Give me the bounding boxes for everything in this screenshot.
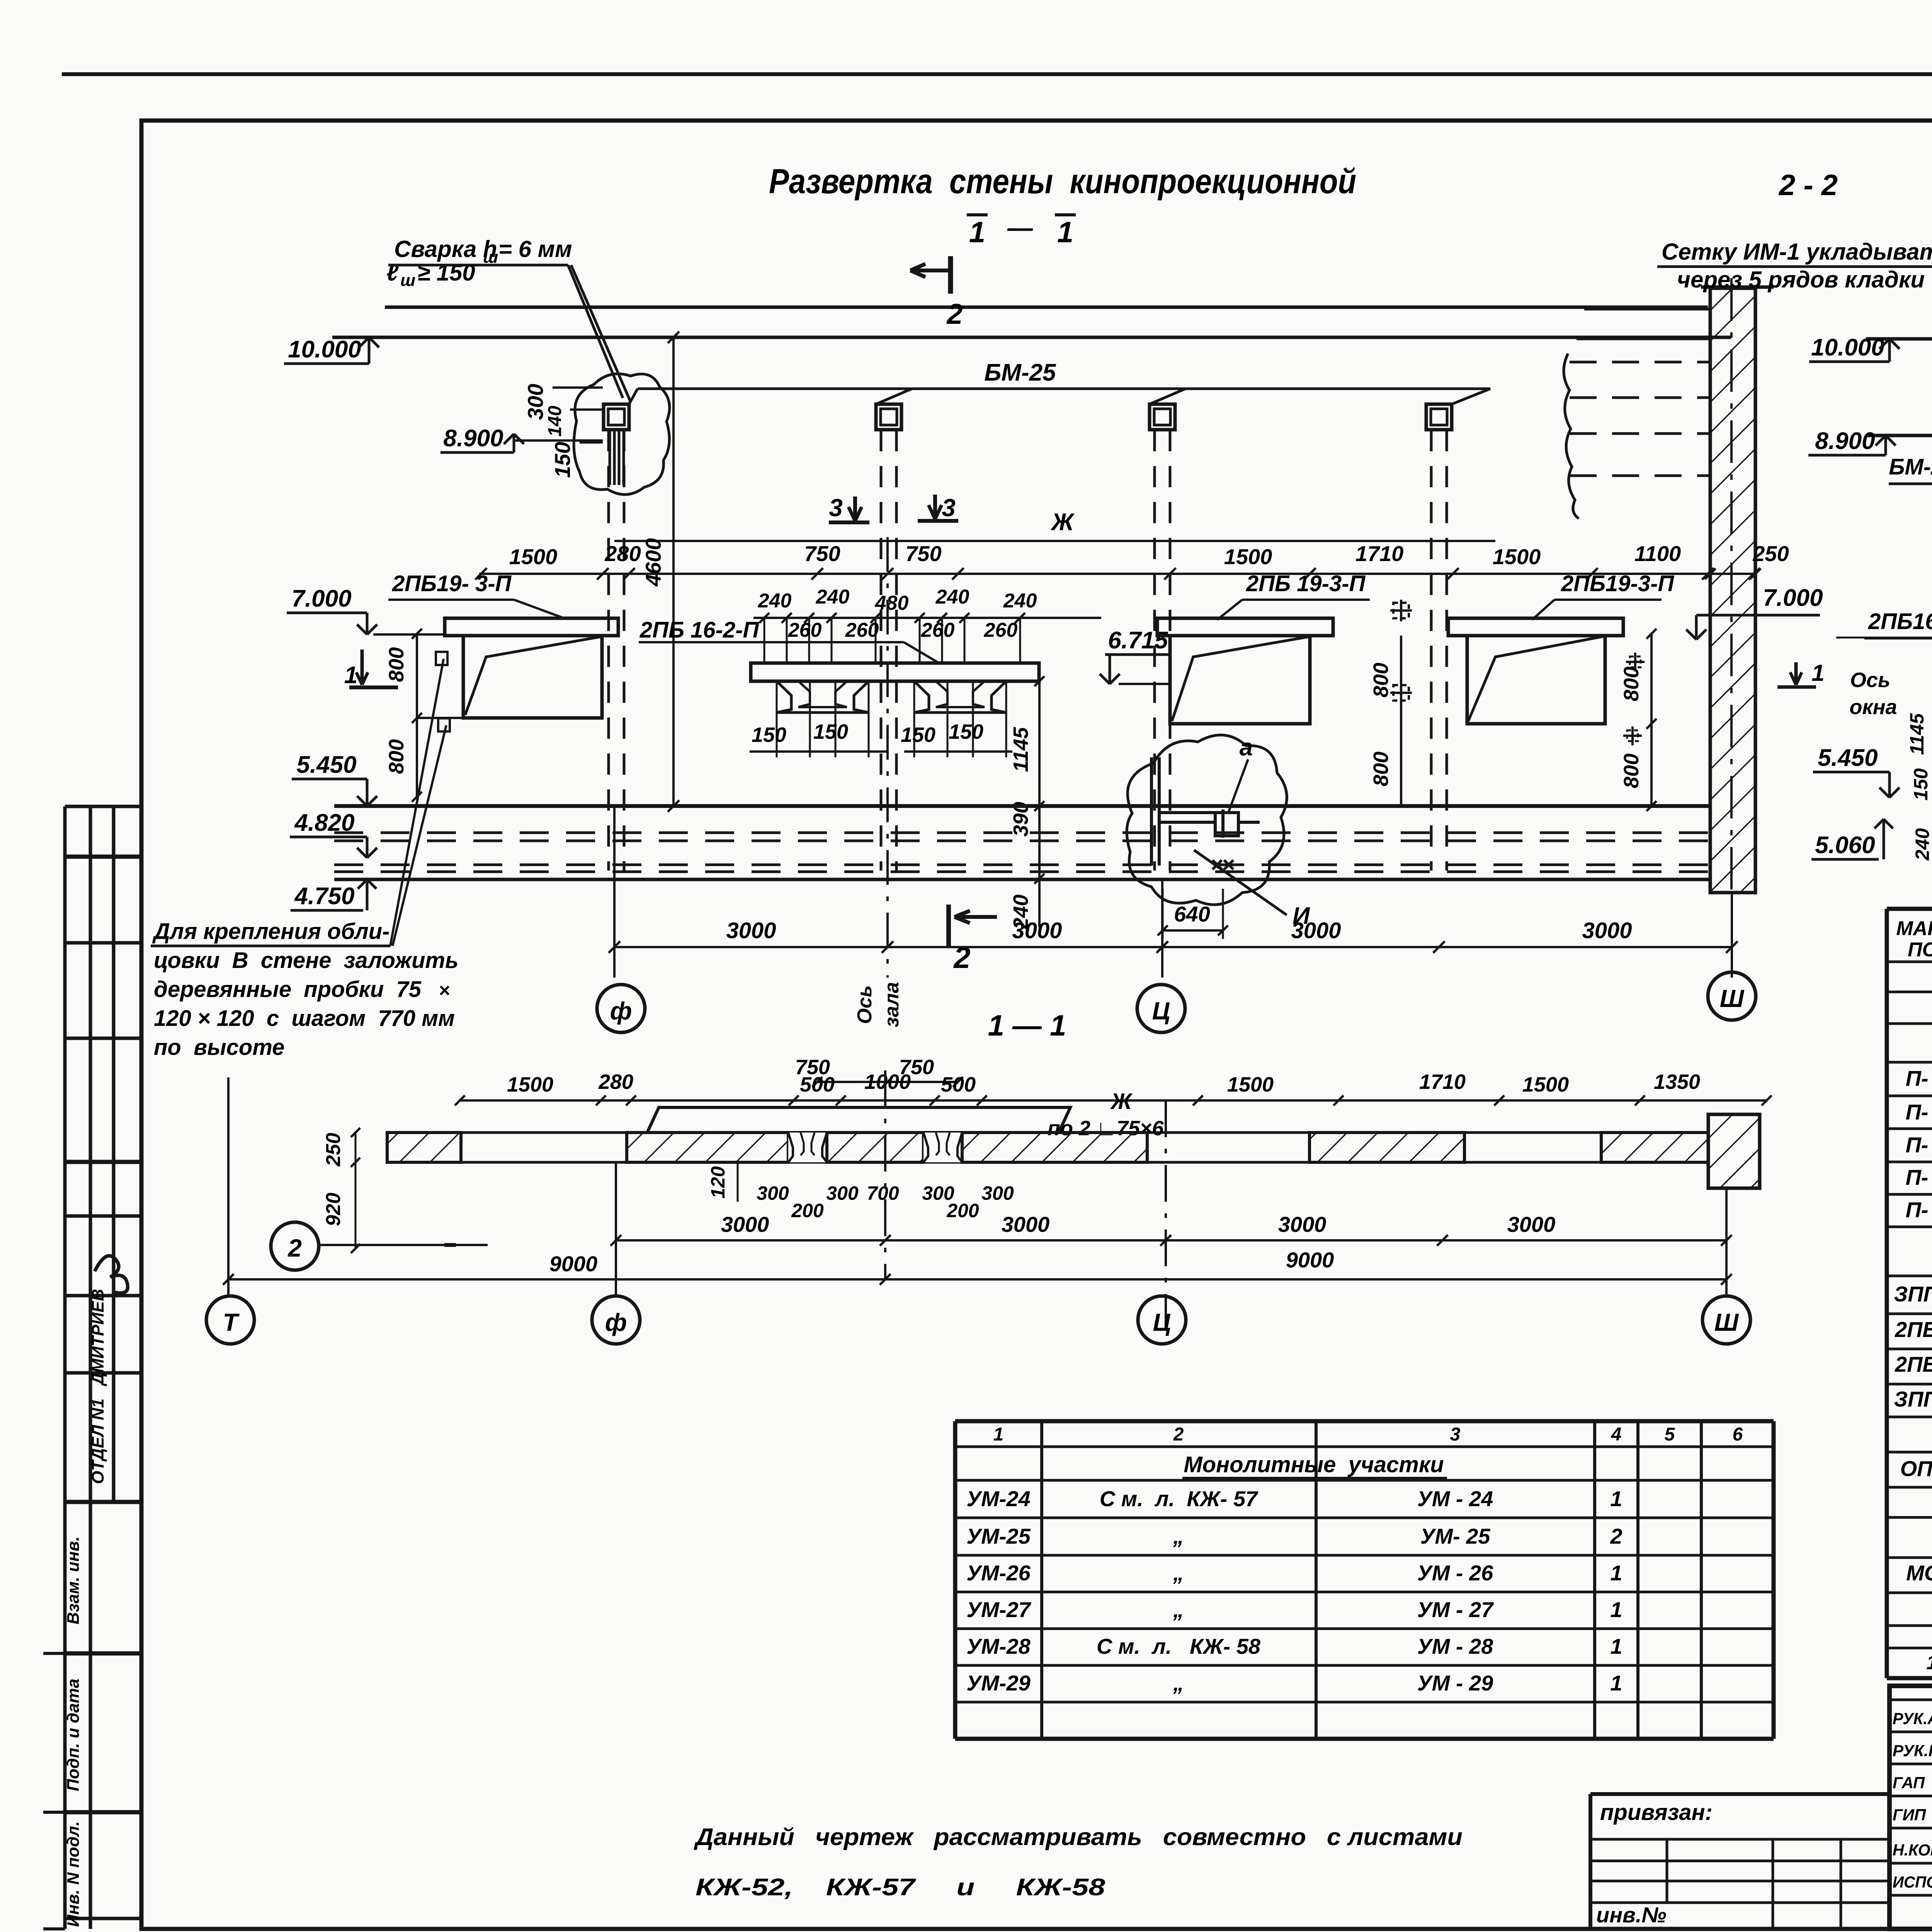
- svg-text:9000: 9000: [1286, 1248, 1334, 1272]
- svg-text:БМ-25: БМ-25: [1889, 454, 1932, 480]
- s11 end block: [1708, 1114, 1760, 1188]
- svg-text:Н.КОНТР.: Н.КОНТР.: [1893, 1841, 1932, 1859]
- window W2 opening: [1170, 636, 1310, 724]
- svg-text:Ж: Ж: [1110, 1089, 1133, 1114]
- svg-text:1: 1: [1610, 1671, 1622, 1695]
- s11 axis bubble T: [206, 1296, 254, 1344]
- svg-text:3: 3: [942, 494, 956, 522]
- s11 pier F1: [627, 1133, 788, 1162]
- svg-text:920: 920: [322, 1193, 345, 1226]
- dim 800 800 right of W3: [1650, 634, 1653, 806]
- svg-text:140: 140: [545, 406, 565, 437]
- svg-text:3000: 3000: [1291, 918, 1341, 943]
- masonry wall cap line: [1701, 286, 1774, 289]
- svg-text:≥ 150: ≥ 150: [417, 260, 475, 286]
- svg-text:800: 800: [385, 647, 408, 682]
- svg-text:2ПБ19-3-П: 2ПБ19-3-П: [1561, 571, 1674, 596]
- zh line: [614, 540, 1495, 542]
- svg-text:1: 1: [344, 662, 357, 689]
- dim 800 800 left: [416, 634, 418, 797]
- svg-text:Ц: Ц: [1152, 997, 1170, 1025]
- svg-text:Сварка h: Сварка h: [394, 236, 497, 262]
- wall anchor marks mid: [1390, 600, 1412, 621]
- niche a detail: [1150, 757, 1153, 866]
- svg-text:5.450: 5.450: [1818, 745, 1878, 771]
- column K1 anchor box: [604, 404, 629, 430]
- svg-text:800: 800: [1620, 753, 1643, 788]
- svg-text:150: 150: [949, 720, 983, 743]
- svg-text:КЖ-52, КЖ-57 и КЖ-5: КЖ-52, КЖ-57 и КЖ-58: [696, 1874, 1105, 1901]
- svg-text:3000: 3000: [721, 1212, 769, 1236]
- svg-text:УМ - 28: УМ - 28: [1417, 1634, 1493, 1658]
- svg-text:260: 260: [921, 619, 955, 641]
- svg-text:240: 240: [758, 590, 792, 612]
- svg-text:Ш: Ш: [1714, 1308, 1739, 1336]
- s11 pier Sh-left: [1601, 1133, 1708, 1162]
- svg-text:МАРКА: МАРКА: [1896, 917, 1932, 940]
- svg-text:УМ - 24: УМ - 24: [1417, 1486, 1493, 1511]
- svg-text:4: 4: [1611, 1424, 1622, 1445]
- svg-text:280: 280: [604, 541, 641, 566]
- svg-text:ОТДЕЛ N1: ОТДЕЛ N1: [88, 1398, 107, 1484]
- svg-text:ДМИТРИЕВ: ДМИТРИЕВ: [88, 1289, 107, 1386]
- s11 axis bubble C: [1138, 1296, 1186, 1344]
- svg-text:1500: 1500: [507, 1073, 553, 1096]
- svg-text:3: 3: [1450, 1424, 1461, 1445]
- svg-text:1: 1: [993, 1424, 1004, 1445]
- svg-text:150: 150: [1910, 768, 1932, 801]
- svg-text:Ось: Ось: [854, 985, 876, 1024]
- svg-text:1500: 1500: [509, 544, 558, 569]
- svg-text:150: 150: [752, 723, 786, 747]
- svg-text:ПОЗ.: ПОЗ.: [1908, 939, 1932, 961]
- svg-text:„: „: [1173, 1597, 1184, 1622]
- s11 niche cut 1: [788, 1133, 827, 1162]
- svg-text:деревянные пробки 75: деревянные пробки 75: [154, 977, 422, 1002]
- svg-text:1500: 1500: [1493, 544, 1541, 569]
- svg-text:150: 150: [901, 723, 935, 747]
- s11 steel angles plate: [647, 1107, 1070, 1133]
- s11 axis bubble F: [592, 1296, 640, 1344]
- svg-text:БМ-25: БМ-25: [984, 359, 1056, 386]
- svg-text:200: 200: [791, 1200, 824, 1221]
- svg-text:1710: 1710: [1355, 541, 1404, 566]
- anchor crosses: [1213, 860, 1222, 869]
- anchor mark plus W3 lower: [1631, 726, 1634, 745]
- s22 level line 10.000: [1866, 337, 1932, 341]
- s11 pier mid: [827, 1133, 923, 1162]
- revision cloud a: [1127, 735, 1287, 905]
- svg-text:—: —: [1007, 213, 1033, 242]
- svg-text:1: 1: [1057, 216, 1073, 249]
- svg-text:Ось: Ось: [1850, 668, 1890, 692]
- svg-text:Т: Т: [223, 1308, 240, 1336]
- elevation dim line 3000x4: [614, 946, 1732, 948]
- lintel bar over window W2: [1157, 618, 1333, 636]
- elevation roof beam top line: [385, 306, 1708, 309]
- niche vertical guide lines: [776, 681, 778, 757]
- svg-text:800: 800: [1369, 752, 1393, 786]
- lintel bar over window W1: [445, 618, 618, 636]
- svg-text:1: 1: [1811, 660, 1824, 686]
- svg-text:3: 3: [829, 494, 843, 522]
- svg-text:3000: 3000: [1278, 1212, 1327, 1236]
- column K3 anchor box: [1150, 404, 1175, 430]
- svg-text:1500: 1500: [1227, 1073, 1274, 1096]
- svg-text:ЗПП-14: ЗПП-14: [1894, 1387, 1932, 1411]
- svg-text:300: 300: [523, 384, 548, 420]
- svg-text:МС 2: МС 2: [1906, 1561, 1932, 1585]
- svg-text:500: 500: [941, 1073, 976, 1096]
- svg-text:РУК.АБ-1: РУК.АБ-1: [1893, 1709, 1932, 1728]
- weld note leaders: [568, 265, 623, 398]
- svg-text:1710: 1710: [1419, 1070, 1466, 1094]
- s11 pier T: [387, 1133, 461, 1162]
- svg-text:ГАП: ГАП: [1893, 1774, 1925, 1792]
- svg-text:250: 250: [1752, 541, 1789, 566]
- wall dim 250 top: [1705, 568, 1716, 579]
- column K2 anchor box: [876, 404, 901, 430]
- svg-text:по высоте: по высоте: [154, 1035, 284, 1060]
- svg-text:×: ×: [439, 980, 450, 1001]
- svg-text:3000: 3000: [1002, 1212, 1050, 1236]
- svg-text:Данный чертеж рассматриват: Данный чертеж рассматривать совместно с …: [694, 1824, 1463, 1850]
- svg-text:ф: ф: [605, 1308, 627, 1336]
- svg-text:инв.№: инв.№: [1596, 1903, 1667, 1927]
- dim 1145 390 240 vertical: [1038, 681, 1041, 927]
- s11 niche cut 2: [923, 1133, 962, 1162]
- svg-text:а: а: [1240, 734, 1253, 761]
- s11 axes verticals: [227, 1077, 230, 1296]
- svg-text:6.715: 6.715: [1108, 627, 1168, 654]
- masonry course lines: [1584, 308, 1710, 311]
- svg-text:ГИП: ГИП: [1893, 1806, 1926, 1824]
- svg-text:УМ-26: УМ-26: [966, 1561, 1031, 1585]
- svg-text:1500: 1500: [1224, 544, 1272, 569]
- title block staff rows: [1889, 1699, 1932, 1701]
- s11 detail bubble 2: [271, 1222, 319, 1270]
- window W1 opening: [463, 636, 602, 718]
- leader I: [1194, 850, 1287, 915]
- svg-text:УМ-29: УМ-29: [966, 1671, 1031, 1695]
- s11 dim line upper: [460, 1099, 1767, 1102]
- svg-text:2: 2: [1610, 1524, 1622, 1548]
- svg-text:800: 800: [385, 739, 408, 774]
- svg-text:П- 22: П- 22: [1906, 1165, 1932, 1189]
- svg-text:260: 260: [788, 619, 822, 641]
- masonry wall hatched: [1710, 288, 1755, 893]
- svg-text:УМ - 26: УМ - 26: [1417, 1561, 1493, 1585]
- svg-text:2: 2: [287, 1234, 302, 1262]
- svg-text:5.450: 5.450: [296, 752, 356, 778]
- sheet top trim line: [62, 72, 1932, 76]
- svg-text:= 6 мм: = 6 мм: [498, 236, 572, 262]
- svg-text:Развертка стены кинопроекцио: Развертка стены кинопроекционной: [769, 162, 1356, 201]
- signature Dmitriev: [95, 1256, 128, 1293]
- svg-text:8.900: 8.900: [1815, 428, 1875, 454]
- window dim line: [479, 573, 1754, 575]
- axis bubble C elevation: [1137, 985, 1185, 1032]
- svg-text:ОП - 1: ОП - 1: [1900, 1456, 1932, 1481]
- svg-text:„: „: [1173, 1671, 1184, 1695]
- column K2 dashed shafts: [880, 430, 883, 871]
- svg-text:Ш: Ш: [1720, 985, 1745, 1012]
- column K4 anchor box: [1426, 404, 1452, 430]
- svg-text:Инв. N подл.: Инв. N подл.: [64, 1821, 83, 1927]
- mono table grid: [955, 1419, 1774, 1423]
- axis verticals elevation: [613, 806, 616, 978]
- svg-text:ИСПОЛН.: ИСПОЛН.: [1893, 1873, 1932, 1891]
- note leaders to plugs: [390, 659, 444, 946]
- svg-text:480: 480: [875, 592, 909, 614]
- svg-text:750: 750: [905, 541, 941, 566]
- lintel bar over window W3: [1448, 618, 1623, 636]
- svg-text:цовки В стене заложить: цовки В стене заложить: [154, 948, 458, 973]
- svg-text:300: 300: [826, 1182, 859, 1204]
- masonry break line: [1564, 354, 1579, 519]
- svg-text:1: 1: [1927, 1651, 1932, 1674]
- svg-text:120 × 120 с шагом 770 мм: 120 × 120 с шагом 770 мм: [154, 1006, 455, 1031]
- svg-text:200: 200: [946, 1200, 979, 1221]
- svg-text:1: 1: [1610, 1634, 1622, 1658]
- svg-text:4600: 4600: [641, 538, 665, 587]
- svg-text:Монолитные участки: Монолитные участки: [1184, 1452, 1444, 1477]
- svg-text:150: 150: [813, 720, 848, 743]
- svg-text:280: 280: [598, 1070, 633, 1094]
- niche group left: [777, 681, 791, 713]
- svg-text:1350: 1350: [1654, 1070, 1700, 1094]
- level line 5.450: [334, 804, 1710, 808]
- svg-text:1 — 1: 1 — 1: [988, 1009, 1066, 1042]
- svg-text:500: 500: [800, 1073, 835, 1096]
- svg-text:260: 260: [984, 619, 1018, 641]
- s11 pier C: [1310, 1133, 1464, 1162]
- section cut mark 3 right: [933, 495, 937, 519]
- svg-text:Подп. и дата: Подп. и дата: [64, 1679, 83, 1791]
- svg-text:2: 2: [946, 298, 963, 330]
- section cut mark 2 top: [948, 256, 953, 294]
- svg-text:240: 240: [935, 586, 969, 608]
- svg-text:800: 800: [1620, 667, 1643, 701]
- privyazan grid: [1590, 1838, 1890, 1841]
- svg-text:Ж: Ж: [1050, 509, 1075, 536]
- column K1 dashed shafts: [607, 430, 610, 871]
- svg-text:2ПБ-16: 2ПБ-16: [1895, 1317, 1932, 1342]
- svg-text:1: 1: [969, 216, 985, 249]
- svg-text:1145: 1145: [1009, 727, 1032, 772]
- svg-text:УМ-27: УМ-27: [966, 1597, 1031, 1622]
- svg-text:С м. л. КЖ- 58: С м. л. КЖ- 58: [1097, 1634, 1261, 1658]
- column K1 detail plates: [609, 430, 611, 485]
- axis bubble F elevation: [597, 985, 645, 1032]
- girder leaders: [629, 389, 638, 404]
- left stamp column dividers: [65, 805, 141, 808]
- svg-text:240: 240: [816, 586, 850, 608]
- svg-text:7.000: 7.000: [1763, 585, 1823, 611]
- svg-text:УМ - 27: УМ - 27: [1417, 1597, 1494, 1622]
- window W3 opening: [1467, 636, 1605, 724]
- svg-text:2: 2: [1173, 1424, 1184, 1445]
- svg-text:Для крепления обли-: Для крепления обли-: [152, 919, 389, 944]
- svg-text:УМ-28: УМ-28: [966, 1634, 1031, 1658]
- svg-text:П- 52: П- 52: [1906, 1066, 1932, 1090]
- svg-text:ш: ш: [400, 271, 415, 290]
- dim 800 800 mid: [1400, 636, 1402, 806]
- s11 top dim line 750 750: [817, 1081, 958, 1083]
- svg-text:120: 120: [707, 1166, 729, 1199]
- left trim ticks: [43, 1652, 65, 1655]
- s11 os zala axis: [884, 1070, 886, 1279]
- svg-text:5.060: 5.060: [1815, 832, 1875, 859]
- svg-text:10.000: 10.000: [288, 336, 361, 363]
- svg-text:окна: окна: [1849, 696, 1897, 719]
- svg-text:1: 1: [1610, 1486, 1622, 1511]
- svg-text:3000: 3000: [1582, 918, 1632, 943]
- s11 dim line 9000x2: [228, 1278, 1726, 1281]
- niche group right: [914, 681, 929, 713]
- svg-text:1145: 1145: [1906, 713, 1928, 755]
- middle lintel bar 2PB16: [751, 663, 1039, 681]
- section cut mark 2 bottom: [946, 905, 951, 946]
- svg-text:ℓ: ℓ: [386, 260, 399, 286]
- floor line solid: [334, 878, 1710, 881]
- s11 dim line 3000x4: [616, 1239, 1726, 1242]
- svg-text:2ПБ-19: 2ПБ-19: [1895, 1352, 1932, 1376]
- svg-text:„: „: [1173, 1524, 1184, 1548]
- svg-text:3000: 3000: [1012, 918, 1062, 943]
- s22 level line 8.900: [1866, 434, 1932, 437]
- svg-text:260: 260: [845, 619, 879, 641]
- svg-text:300: 300: [981, 1182, 1014, 1204]
- s11 axis bubble Sh: [1702, 1296, 1750, 1344]
- svg-text:750: 750: [804, 541, 840, 566]
- dim 4600 vertical: [672, 337, 675, 806]
- left stamp column verticals: [63, 806, 67, 1929]
- spec table grid: [1887, 907, 1932, 911]
- svg-text:„: „: [1173, 1561, 1184, 1585]
- svg-text:зала: зала: [881, 982, 903, 1027]
- svg-text:10.000: 10.000: [1811, 334, 1884, 361]
- svg-text:640: 640: [1174, 902, 1210, 926]
- svg-text:2ПБ16-2-П: 2ПБ16-2-П: [1868, 609, 1932, 634]
- s11 dim 250 left: [355, 1133, 357, 1248]
- svg-text:1: 1: [1610, 1561, 1622, 1585]
- section cut mark 1 left: [361, 650, 364, 685]
- svg-text:250: 250: [322, 1133, 345, 1167]
- svg-text:2ПБ19- 3-П: 2ПБ19- 3-П: [392, 571, 512, 596]
- svg-text:Сетку ИМ-1 укладывать: Сетку ИМ-1 укладывать: [1662, 239, 1932, 265]
- s22 level line 7.000: [1836, 637, 1932, 639]
- svg-text:4.820: 4.820: [294, 810, 354, 836]
- elevation roof beam bottom line: [332, 336, 1731, 339]
- svg-text:1: 1: [1610, 1597, 1622, 1622]
- svg-text:Взам. инв.: Взам. инв.: [64, 1536, 83, 1624]
- svg-text:УМ-24: УМ-24: [966, 1486, 1031, 1511]
- svg-text:8.900: 8.900: [443, 425, 503, 452]
- svg-text:1500: 1500: [1522, 1073, 1569, 1096]
- svg-text:150: 150: [550, 442, 575, 478]
- column K4 dashed shafts: [1430, 430, 1433, 871]
- svg-text:5: 5: [1665, 1424, 1675, 1445]
- svg-text:700: 700: [867, 1182, 899, 1204]
- axis bubble Sh elevation: [1708, 972, 1756, 1020]
- svg-text:П- 73: П- 73: [1906, 1197, 1932, 1222]
- svg-text:УМ-25: УМ-25: [966, 1524, 1031, 1548]
- svg-text:2: 2: [953, 940, 970, 975]
- svg-text:ЗПП-16: ЗПП-16: [1894, 1282, 1932, 1306]
- svg-text:300: 300: [757, 1182, 789, 1204]
- svg-text:3000: 3000: [726, 918, 776, 943]
- svg-text:6: 6: [1733, 1424, 1743, 1445]
- dashed floor lines: [334, 832, 1710, 834]
- s22 cut mark 1: [1794, 662, 1798, 685]
- column K3 dashed shafts: [1153, 430, 1156, 871]
- svg-text:4.750: 4.750: [294, 883, 354, 910]
- svg-text:УМ - 29: УМ - 29: [1417, 1671, 1493, 1695]
- title block outline: [1889, 1686, 1932, 1929]
- svg-text:1000: 1000: [864, 1070, 911, 1094]
- svg-text:240: 240: [1003, 590, 1037, 612]
- wall anchor plates near W1: [436, 652, 447, 665]
- svg-text:П- 25: П- 25: [1906, 1100, 1932, 1124]
- svg-text:ф: ф: [610, 997, 632, 1025]
- s11 wall band outline: [387, 1131, 1708, 1134]
- svg-text:через 5 рядов кладки: через 5 рядов кладки: [1677, 267, 1925, 293]
- svg-text:3000: 3000: [1507, 1212, 1556, 1236]
- anchor mark plus W3 upper: [1634, 653, 1636, 672]
- svg-text:П- 53: П- 53: [1906, 1133, 1932, 1157]
- svg-text:привязан:: привязан:: [1600, 1800, 1713, 1825]
- svg-text:800: 800: [1369, 663, 1393, 697]
- s11 pier F2: [962, 1133, 1147, 1162]
- svg-text:УМ- 25: УМ- 25: [1420, 1524, 1490, 1548]
- svg-text:С м. л. КЖ- 57: С м. л. КЖ- 57: [1100, 1486, 1259, 1511]
- svg-text:1100: 1100: [1634, 541, 1681, 566]
- svg-text:7.000: 7.000: [291, 585, 351, 612]
- svg-text:2ПБ 16-2-П: 2ПБ 16-2-П: [639, 617, 760, 643]
- svg-text:2 - 2: 2 - 2: [1778, 169, 1838, 202]
- svg-text:240: 240: [1912, 828, 1932, 861]
- column K1 revision cloud: [574, 374, 670, 494]
- svg-text:РУК.КБ-1: РУК.КБ-1: [1893, 1742, 1932, 1760]
- privyazan box: [1590, 1792, 1890, 1796]
- svg-text:9000: 9000: [549, 1252, 598, 1276]
- svg-text:2ПБ 19-3-П: 2ПБ 19-3-П: [1246, 571, 1366, 596]
- svg-text:Ц: Ц: [1153, 1308, 1171, 1336]
- masonry wall axis: [1730, 278, 1733, 893]
